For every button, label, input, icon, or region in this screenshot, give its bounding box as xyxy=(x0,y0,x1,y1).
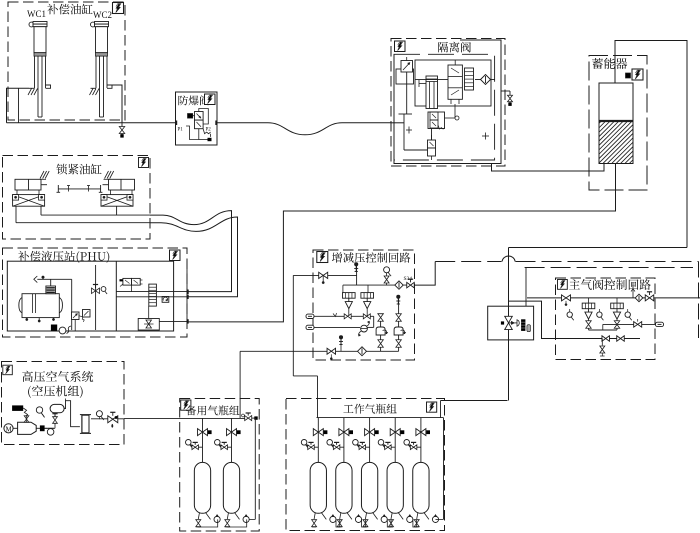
svg-text:WC1: WC1 xyxy=(27,9,46,19)
svg-text:M: M xyxy=(6,425,13,433)
svg-text:WC2: WC2 xyxy=(93,10,112,20)
svg-text:P1: P1 xyxy=(178,128,184,133)
svg-text:P2: P2 xyxy=(206,128,212,133)
svg-text:S34: S34 xyxy=(404,276,413,282)
